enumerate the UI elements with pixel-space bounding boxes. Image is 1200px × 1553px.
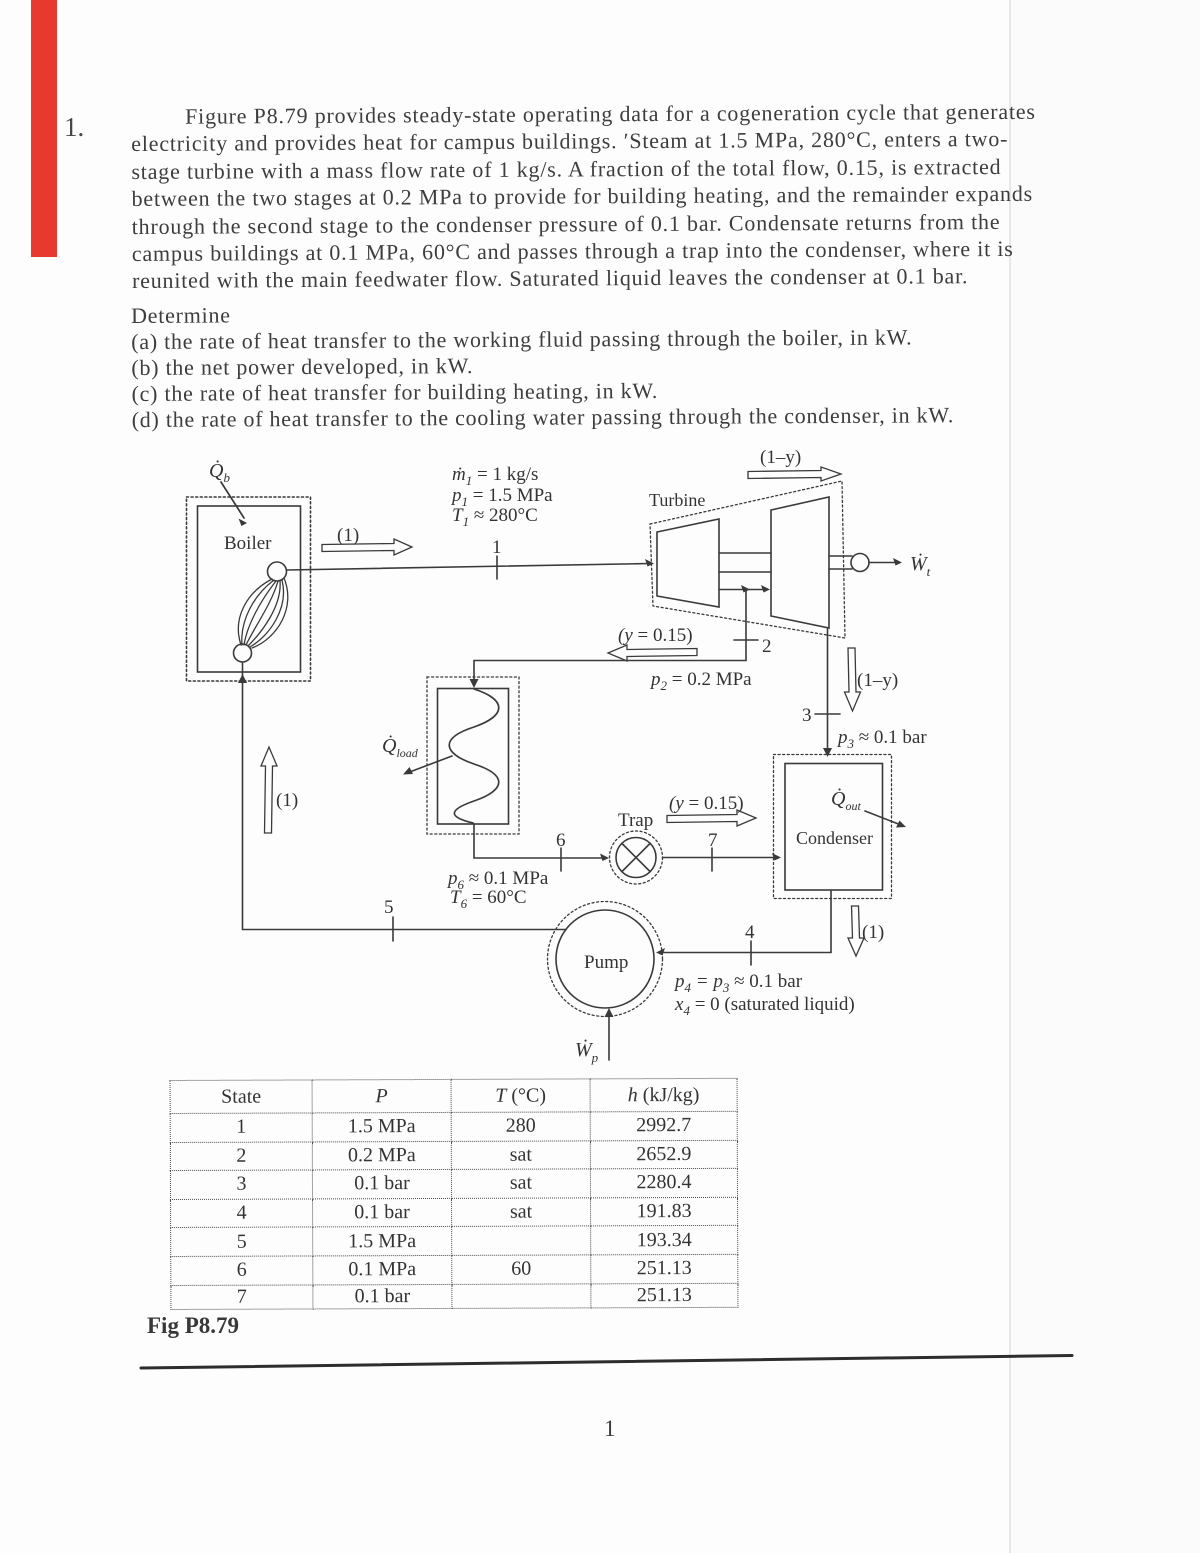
- svg-text:(1): (1): [337, 525, 359, 546]
- hollow arrow left (y=0.15): [608, 645, 697, 661]
- hollow arrow down (1-y) right side: [845, 648, 861, 711]
- condenser shell: [785, 764, 883, 891]
- boiler inner shell: [198, 506, 301, 672]
- wire: pump to boiler feedwater return: [243, 663, 567, 930]
- hollow arrow down (1) condenser out: [848, 906, 864, 956]
- node 2 tick and label: [734, 639, 758, 641]
- red margin bar: [31, 0, 57, 257]
- svg-text:Pump: Pump: [584, 952, 628, 973]
- svg-text:(y = 0.15): (y = 0.15): [618, 625, 693, 646]
- turbine stage 2: [771, 497, 829, 628]
- feedwater arrowhead into boiler: [238, 674, 247, 683]
- heat exchanger coil: [449, 689, 499, 823]
- item number: [64, 112, 84, 143]
- svg-text:Turbine: Turbine: [649, 490, 705, 510]
- svg-text:4: 4: [745, 922, 755, 943]
- state table: [170, 1078, 739, 1310]
- Wt output arrow: [869, 562, 898, 564]
- svg-text:p4 = p3 ≈ 0.1 bar: p4 = p3 ≈ 0.1 bar: [673, 971, 803, 995]
- wire: extraction line to heat exchanger: [474, 661, 746, 685]
- svg-text:Ẇt: Ẇt: [910, 552, 931, 579]
- boiler mud drum (bottom circle): [234, 644, 252, 662]
- svg-text:Condenser: Condenser: [796, 828, 873, 848]
- turbine dashed envelope: [650, 481, 845, 638]
- svg-text:Q̇out: Q̇out: [831, 787, 861, 813]
- wire: trap to condenser: [663, 857, 778, 859]
- trap X: [622, 844, 650, 872]
- svg-text:3: 3: [802, 705, 812, 726]
- pump body: [556, 910, 654, 1008]
- heat input arrow into boiler: [221, 482, 244, 518]
- svg-text:Ẇp: Ẇp: [575, 1038, 599, 1065]
- heat exchanger HX (dashed enclosure): [427, 677, 519, 834]
- Qload arrow: [407, 756, 452, 773]
- problem paragraph: [131, 98, 1052, 295]
- bottom rule: [141, 1356, 1072, 1369]
- trap body: [616, 838, 656, 878]
- hollow arrow right (y=0.15) lower: [667, 810, 756, 826]
- boiler steam drum (top circle): [268, 562, 287, 581]
- scanner page right edge: [1009, 0, 1011, 1553]
- condenser C (dashed enclosure): [774, 755, 892, 899]
- svg-text:x4 = 0 (saturated liquid): x4 = 0 (saturated liquid): [674, 994, 855, 1018]
- node 3 tick and label: [815, 713, 840, 715]
- svg-text:(1–y): (1–y): [760, 447, 801, 468]
- wire: extraction line down from interstage: [745, 590, 747, 661]
- turbine output shaft: [829, 555, 852, 557]
- svg-text:(1): (1): [276, 790, 298, 811]
- hollow arrow right (1): [322, 539, 412, 555]
- Wp input arrow: [608, 1013, 610, 1060]
- svg-text:p2 = 0.2 MPa: p2 = 0.2 MPa: [649, 669, 752, 693]
- heat exchanger shell: [438, 689, 509, 825]
- boiler B (dashed enclosure): [187, 497, 311, 681]
- svg-text:Q̇load: Q̇load: [382, 734, 419, 760]
- svg-text:1: 1: [492, 537, 502, 558]
- svg-text:5: 5: [384, 897, 394, 918]
- wire: turbine exhaust to condenser: [827, 629, 829, 751]
- hollow arrow right (1-y): [748, 467, 841, 481]
- svg-text:Q̇b: Q̇b: [209, 459, 230, 485]
- turbine stage 1: [657, 519, 719, 607]
- svg-text:(y = 0.15): (y = 0.15): [669, 793, 744, 814]
- interstage flow line with arrows: [719, 589, 765, 591]
- shaft coupling circle: [851, 554, 869, 572]
- svg-text:2: 2: [762, 636, 772, 657]
- boiler tube bundle: [238, 579, 272, 645]
- svg-text:Boiler: Boiler: [224, 533, 272, 554]
- svg-text:(1–y): (1–y): [857, 670, 898, 691]
- svg-text:p3 ≈ 0.1 bar: p3 ≈ 0.1 bar: [836, 727, 927, 751]
- wire: heat exchanger outlet to trap: [474, 824, 605, 858]
- pump P outer: [548, 902, 663, 1017]
- wire: condenser outlet to pump: [660, 891, 831, 953]
- trap TR outer: [610, 831, 663, 884]
- shaft between stages: [719, 552, 771, 554]
- hollow arrow up (1) left side: [261, 747, 277, 833]
- Qout arrow: [865, 811, 901, 825]
- page number: [604, 1416, 616, 1442]
- svg-text:Trap: Trap: [618, 810, 653, 831]
- svg-text:(1): (1): [862, 922, 884, 943]
- wire: main steam line boiler to turbine: [287, 564, 652, 571]
- Fig label: [147, 1313, 239, 1339]
- determine list: [131, 298, 1052, 433]
